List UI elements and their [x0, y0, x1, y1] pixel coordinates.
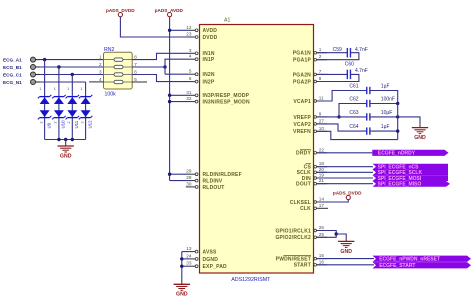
IC pin 13 AVSS [186, 246, 217, 255]
resistor RN2 element 1-8 [99, 54, 137, 61]
IC pin 27 VCAP2 [293, 118, 327, 127]
svg-text:24: 24 [186, 253, 192, 258]
svg-text:CLK: CLK [300, 206, 311, 212]
svg-text:pADS_DVDD: pADS_DVDD [333, 191, 362, 196]
wire pADS_AVDD rail [169, 17, 171, 181]
junction dot IN1P/IN2N tee [163, 65, 166, 68]
wire GPIO2 branch [317, 234, 336, 237]
wire ECG_B1 row [40, 66, 104, 68]
svg-text:PGA1N: PGA1N [293, 51, 311, 57]
net label SPI_ECGFE_SCLK [373, 170, 449, 176]
svg-text:VREFP: VREFP [293, 115, 311, 121]
junction dot bus col2 [57, 138, 60, 141]
resistor network RN2 body [104, 47, 133, 98]
junction dot node A1/diode col1 [43, 58, 46, 61]
svg-text:GPIO2/RCLK2: GPIO2/RCLK2 [275, 235, 311, 241]
TVS diode U11 [66, 87, 80, 128]
IC pin 25 GPIO2/RCLK2 [275, 232, 327, 241]
IC pin 29 RLDIN/RLDREF [186, 169, 242, 178]
wire CLKSEL to pADS_DVDD [317, 200, 348, 202]
capacitor C64 1uF [349, 124, 389, 135]
wire rail to pin 28 [170, 180, 189, 182]
svg-text:PGA1P: PGA1P [293, 58, 311, 64]
svg-text:7: 7 [319, 69, 322, 74]
svg-text:ECG_A1: ECG_A1 [3, 58, 22, 63]
svg-text:16: 16 [319, 259, 325, 264]
wire C63 to bus [370, 116, 398, 118]
svg-text:AVSS: AVSS [203, 250, 218, 256]
IC pin 30 RLDOUT [186, 181, 225, 190]
junction dot rail pin31 [168, 94, 171, 97]
wire diode column U10 [58, 67, 60, 140]
svg-text:RLDINV: RLDINV [203, 179, 223, 185]
svg-text:20: 20 [319, 167, 325, 172]
svg-text:23: 23 [186, 32, 192, 37]
svg-text:C63: C63 [349, 110, 358, 116]
capacitor C63 10uF [349, 110, 392, 121]
svg-text:5: 5 [134, 77, 137, 82]
wire IN2N branch [165, 73, 189, 75]
svg-text:26: 26 [319, 225, 325, 230]
svg-text:ECG_C1: ECG_C1 [3, 72, 22, 77]
IC pin 1 PGA1N [293, 47, 327, 56]
svg-text:18: 18 [319, 161, 325, 166]
IC pin 23 DVDD [186, 32, 217, 41]
IC pin 15 PWDN/RESET [276, 253, 327, 262]
wire C59 to PGA1P loop [317, 53, 359, 60]
connector pin ECG_A1 [3, 57, 40, 62]
IC pin 28 RLDINV [186, 175, 222, 184]
wire diode column U11 [71, 75, 73, 140]
svg-text:GND: GND [340, 249, 352, 255]
wire bus vertical [397, 104, 399, 140]
IC pin 6 IN2P [189, 76, 215, 85]
svg-text:IN1P: IN1P [203, 57, 215, 63]
svg-text:GND: GND [60, 153, 72, 159]
capacitor C62 100nF [349, 97, 395, 108]
IC pin 7 PGA2N [293, 69, 327, 78]
svg-text:3: 3 [99, 69, 102, 74]
svg-text:GND: GND [176, 292, 188, 298]
resistor RN2 element 4-5 [99, 77, 137, 84]
connector pin ECG_B1 [3, 65, 40, 70]
svg-text:C60: C60 [345, 62, 354, 68]
svg-text:6: 6 [189, 76, 192, 81]
svg-text:14: 14 [319, 197, 325, 202]
svg-text:2: 2 [319, 54, 322, 59]
wire C62 to bus [370, 103, 398, 105]
svg-text:31: 31 [186, 90, 192, 95]
IC pin 16 START [294, 259, 327, 268]
wire SPI_ECGFE_SCLK net [317, 171, 373, 173]
svg-text:29: 29 [186, 169, 192, 174]
IC pin 10 VREFN [293, 126, 327, 135]
wire GPIO to ground [336, 234, 346, 238]
svg-text:DRDY: DRDY [296, 151, 311, 157]
IC pin 18 CS [304, 161, 327, 170]
junction dot bus/C64 [396, 129, 399, 132]
wire rail to pin 31 [170, 94, 189, 96]
svg-text:PGA2P: PGA2P [293, 79, 311, 85]
IC pin 4 IN1P [189, 54, 215, 63]
svg-text:ECG_B1: ECG_B1 [3, 65, 22, 70]
svg-text:30: 30 [186, 181, 192, 186]
IC pin 19 DIN [302, 173, 327, 182]
svg-text:PWDN/RESET: PWDN/RESET [276, 257, 311, 263]
RN2 pin 4 stub [89, 81, 103, 83]
svg-text:IN3P/RESP_MODP: IN3P/RESP_MODP [203, 93, 250, 99]
svg-text:100nF: 100nF [381, 97, 395, 103]
svg-text:28: 28 [186, 175, 192, 180]
wire AVSS [182, 251, 189, 253]
wire PGA1N to C59 [317, 52, 347, 54]
IC pin 3 IN1N [189, 48, 215, 57]
svg-text:VCAP1: VCAP1 [293, 99, 311, 105]
IC pin 32 IN3N/RESP_MODN [186, 96, 250, 105]
wire AVDD pin 12 [170, 29, 189, 31]
junction dot GPIO tee [335, 232, 338, 235]
IC pin 20 SCLK [297, 167, 327, 176]
junction dot bus gnd stem [64, 138, 67, 141]
ground symbol (diode array) [58, 140, 74, 160]
wire IN1P branch [165, 59, 189, 74]
ground symbol (GPIO) [338, 238, 354, 254]
svg-text:1: 1 [39, 87, 41, 91]
junction dot AVDD pin12 [168, 29, 171, 32]
wire C60 to PGA2P loop [317, 74, 359, 81]
wire C61 to bus [370, 91, 398, 104]
svg-text:100k: 100k [105, 91, 117, 97]
svg-text:IN3N/RESP_MODN: IN3N/RESP_MODN [203, 100, 250, 106]
wire C64 to bus [370, 130, 398, 132]
svg-text:4.7nF: 4.7nF [355, 68, 368, 74]
connector pin ECG_N1 [3, 80, 40, 85]
wire PWDN net [317, 258, 374, 260]
wire rail to pin 29 [170, 173, 189, 175]
wire pADS_DVDD to pin 23 [120, 17, 188, 37]
wire DRDY net [317, 152, 372, 154]
svg-text:5: 5 [189, 69, 192, 74]
svg-text:2: 2 [39, 122, 43, 124]
wire EXP_PAD [182, 265, 189, 267]
wire ECG_A1 row [40, 59, 104, 61]
svg-text:13: 13 [186, 246, 192, 251]
svg-text:25: 25 [319, 232, 325, 237]
wire diode column U12 [85, 82, 87, 140]
junction dot bus/C63 [396, 115, 399, 118]
svg-text:8: 8 [319, 76, 322, 81]
svg-text:C59: C59 [333, 47, 342, 53]
svg-text:12: 12 [186, 25, 192, 30]
capacitor C59 4.7nF [333, 47, 368, 58]
wire IN2P net [132, 75, 188, 82]
svg-text:VCAP2: VCAP2 [293, 122, 311, 128]
svg-text:2: 2 [54, 122, 58, 124]
ground symbol (VREF) [412, 124, 428, 141]
wire VREFP to ground [398, 117, 420, 124]
wire DGND [182, 258, 189, 260]
svg-text:33: 33 [186, 261, 192, 266]
svg-text:DVDD: DVDD [203, 35, 218, 41]
svg-text:U11: U11 [74, 120, 79, 128]
svg-text:21: 21 [319, 178, 325, 183]
svg-text:EXP_PAD: EXP_PAD [203, 264, 228, 270]
resistor RN2 element 3-6 [99, 69, 137, 76]
net label ECGFE_START [373, 262, 472, 268]
junction dot rail pin32 [168, 100, 171, 103]
junction dot bus/C62 [396, 102, 399, 105]
wire rail to pin 32 [170, 101, 189, 103]
net label SPI_ECGFE_MOSI [373, 175, 449, 181]
svg-text:7: 7 [134, 62, 137, 67]
wire VREFP row [317, 116, 367, 118]
svg-text:SPI_ECGFE_MISO: SPI_ECGFE_MISO [378, 182, 422, 188]
svg-text:GND: GND [414, 135, 426, 141]
op-amp/IC A1 ADS1292RISMT body [200, 17, 314, 282]
IC pin 31 IN3P/RESP_MODP [186, 90, 249, 99]
svg-text:ECG_N1: ECG_N1 [3, 80, 22, 85]
wire IN1P/IN2N net [132, 66, 165, 68]
IC pin 21 DOUT [296, 178, 327, 187]
junction dot VREFP/C62 [337, 115, 340, 118]
wire diode column U9 [44, 60, 46, 140]
svg-text:ECGFE_START: ECGFE_START [379, 263, 415, 269]
IC pin 26 GPIO1/RCLK1 [275, 225, 327, 234]
wire VCAP2 to C64 [317, 124, 367, 131]
svg-text:8: 8 [134, 54, 137, 59]
svg-text:22: 22 [319, 147, 325, 152]
wire SPI_ECGFE_MOSI net [317, 177, 373, 179]
svg-text:C64: C64 [349, 124, 358, 130]
svg-text:11: 11 [319, 96, 324, 101]
wire C62 branch [339, 104, 367, 117]
svg-text:4: 4 [189, 54, 192, 59]
IC pin 24 DGND [186, 253, 218, 262]
junction dot DGND [180, 257, 183, 260]
svg-text:1µF: 1µF [381, 84, 390, 90]
wire VCAP1 to C61 [317, 91, 367, 102]
svg-text:CLKSEL: CLKSEL [290, 200, 311, 206]
RN2 pin 5 stub [132, 81, 147, 83]
svg-text:U10: U10 [61, 120, 66, 129]
svg-text:DGND: DGND [203, 257, 219, 263]
svg-text:1: 1 [67, 87, 69, 91]
svg-text:1: 1 [99, 54, 102, 59]
IC pin 9 VREFP [293, 111, 327, 120]
IC pin 12 AVDD [186, 25, 217, 34]
capacitor C61 1uF [349, 84, 389, 95]
junction dot bus col3 [71, 138, 74, 141]
IC pin 33 EXP_PAD [186, 261, 227, 270]
wire ECG_N1 row [40, 81, 86, 83]
IC pin 11 VCAP1 [293, 96, 327, 105]
svg-text:C61: C61 [349, 84, 358, 90]
svg-text:AVDD: AVDD [203, 28, 218, 34]
power flag pADS_DVDD [106, 8, 135, 17]
svg-text:GPIO1/RCLK1: GPIO1/RCLK1 [275, 228, 311, 234]
power flag pADS_AVDD [155, 8, 184, 17]
power flag pADS_DVDD (CLKSEL) [333, 191, 362, 200]
wire SPI_ECGFE_nCS net [317, 166, 373, 168]
wire SPI_ECGFE_MISO net [317, 183, 373, 185]
net label SPI_ECGFE_nCS [373, 164, 449, 170]
wire IN1N net [132, 53, 188, 59]
svg-text:3: 3 [189, 48, 192, 53]
svg-text:32: 32 [186, 96, 192, 101]
svg-text:15: 15 [319, 253, 325, 258]
svg-text:10µF: 10µF [381, 110, 393, 116]
TVS diode U10 [52, 87, 66, 128]
capacitor C60 4.7nF [345, 62, 368, 80]
wire diode ground bus [45, 139, 86, 141]
junction dot rail pin29 [168, 173, 171, 176]
IC pin 5 IN2N [189, 69, 215, 78]
svg-text:A1: A1 [224, 17, 230, 23]
svg-text:1µF: 1µF [381, 124, 390, 130]
net label ECGFE_nDRDY [372, 150, 448, 156]
svg-text:IN2N: IN2N [203, 72, 215, 78]
net label SPI_ECGFE_MISO [373, 181, 451, 187]
svg-text:9: 9 [319, 111, 322, 116]
svg-text:RLDOUT: RLDOUT [203, 185, 225, 191]
svg-text:C62: C62 [349, 97, 358, 103]
svg-text:ECGFE_nDRDY: ECGFE_nDRDY [378, 151, 416, 157]
junction dot node B1/diode col2 [57, 65, 60, 68]
svg-text:2: 2 [99, 62, 102, 67]
IC pin 14 CLKSEL [290, 197, 327, 206]
svg-text:ADS1292RISMT: ADS1292RISMT [231, 277, 271, 283]
svg-text:17: 17 [319, 203, 325, 208]
svg-text:ECGFE_nPWDN_nRESET: ECGFE_nPWDN_nRESET [379, 257, 440, 263]
IC pin 17 CLK [300, 203, 328, 212]
svg-text:19: 19 [319, 173, 325, 178]
wire AVSS/DGND vertical [181, 252, 183, 281]
junction dot EXP_PAD [180, 265, 183, 268]
svg-text:4: 4 [99, 77, 102, 82]
svg-text:4.7nF: 4.7nF [355, 47, 368, 53]
svg-text:U12: U12 [87, 120, 92, 129]
wire START net [317, 264, 374, 266]
svg-text:DOUT: DOUT [296, 182, 311, 188]
svg-text:U9: U9 [46, 122, 51, 128]
svg-text:2: 2 [80, 122, 84, 124]
wire GPIO1 branch [317, 231, 336, 235]
svg-text:START: START [294, 263, 311, 269]
svg-text:IN2P: IN2P [203, 80, 215, 86]
IC pin 22 DRDY [296, 147, 327, 156]
svg-text:PGA2N: PGA2N [293, 72, 311, 78]
net label ECGFE_nPWDN_nRESET [373, 256, 472, 262]
IC pin 8 PGA2P [293, 76, 327, 85]
wire PGA2N to C60 [317, 73, 347, 75]
junction dot node C1/diode col3 [71, 73, 74, 76]
TVS diode U9 [38, 87, 52, 128]
svg-text:27: 27 [319, 118, 325, 123]
svg-text:RLDIN/RLDREF: RLDIN/RLDREF [203, 172, 242, 178]
connector pin ECG_C1 [3, 72, 40, 77]
svg-text:2: 2 [67, 122, 71, 124]
svg-text:6: 6 [134, 69, 137, 74]
resistor RN2 element 2-7 [99, 62, 137, 69]
svg-text:1: 1 [80, 87, 82, 91]
svg-text:1: 1 [319, 47, 322, 52]
svg-text:VREFN: VREFN [293, 129, 311, 135]
ground symbol (digital) [174, 281, 190, 298]
svg-text:10: 10 [319, 126, 325, 131]
IC pin 2 PGA1P [293, 54, 327, 63]
svg-text:1: 1 [54, 87, 56, 91]
wire VREFN to bus bottom [317, 131, 398, 139]
wire ECG_C1 row [40, 74, 104, 76]
TVS diode U12 [79, 87, 93, 128]
